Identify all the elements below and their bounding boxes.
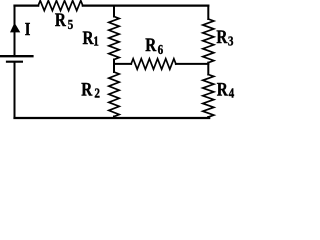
svg-text:R: R	[217, 79, 228, 100]
resistor R6	[131, 35, 176, 70]
wire right branch bottom stub	[207, 117, 209, 118]
svg-text:R: R	[81, 79, 92, 100]
svg-text:6: 6	[158, 42, 164, 57]
svg-text:R: R	[83, 28, 94, 49]
battery cell negative plate	[7, 61, 22, 63]
resistor R1	[83, 17, 120, 60]
svg-text:I: I	[25, 19, 31, 40]
svg-text:2: 2	[94, 86, 100, 101]
wire middle branch bottom stub	[113, 117, 115, 119]
wire right branch center	[207, 63, 209, 75]
wire middle branch top	[113, 6, 115, 17]
wire top-right segment	[83, 4, 209, 6]
resistor R4	[203, 75, 235, 118]
svg-text:R: R	[55, 9, 66, 30]
svg-text:4: 4	[229, 85, 235, 100]
wire left branch lower	[14, 63, 16, 118]
svg-text:5: 5	[68, 17, 74, 32]
wire left branch upper	[14, 6, 16, 56]
wire right branch top	[207, 6, 209, 19]
wire R6 left lead	[114, 63, 131, 65]
current arrow I	[10, 19, 30, 40]
resistor R3	[203, 19, 234, 63]
svg-text:3: 3	[228, 33, 234, 48]
svg-text:R: R	[216, 26, 227, 47]
svg-text:1: 1	[93, 34, 99, 49]
wire top-left segment	[15, 4, 39, 6]
resistor R5	[38, 1, 83, 33]
wire R6 right lead	[176, 63, 208, 65]
wire bottom	[15, 117, 210, 119]
wire middle branch center	[113, 60, 115, 73]
resistor R2	[81, 72, 119, 117]
battery cell positive plate	[0, 55, 32, 57]
svg-text:R: R	[145, 35, 156, 56]
